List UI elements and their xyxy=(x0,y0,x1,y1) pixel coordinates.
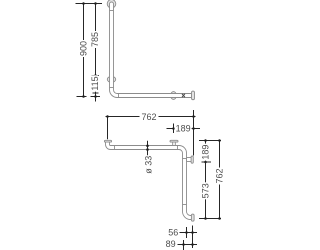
svg-text:900: 900 xyxy=(79,41,89,56)
svg-text:189: 189 xyxy=(176,123,191,133)
right support plate xyxy=(191,156,193,163)
dim dots drawing 1 xyxy=(82,2,97,98)
X mark on horizontal bar xyxy=(182,94,185,97)
label 189 top xyxy=(175,123,192,133)
dimension line 762 top xyxy=(106,116,196,118)
support collar on vertical bar xyxy=(107,76,115,82)
svg-text:89: 89 xyxy=(166,239,176,249)
extension line right bottom xyxy=(199,218,221,220)
joint line after left bend xyxy=(114,146,116,150)
tick bottom of 115 xyxy=(91,96,101,98)
bottom flange plate xyxy=(191,214,194,221)
svg-text:762: 762 xyxy=(141,112,156,122)
svg-text:785: 785 xyxy=(90,32,100,47)
dimension line 56 xyxy=(180,232,198,234)
svg-text:189: 189 xyxy=(201,145,211,160)
svg-text:56: 56 xyxy=(168,227,178,237)
leader line dia 33 xyxy=(147,141,149,156)
right support stem xyxy=(187,158,192,162)
svg-text:573: 573 xyxy=(201,183,211,198)
extension line right top xyxy=(199,140,221,142)
label 900 xyxy=(79,40,89,57)
grab bar tube L-shape elevation xyxy=(110,2,192,98)
support collar on horizontal bar xyxy=(171,92,177,100)
tick 89 left xyxy=(183,240,185,250)
tick 56 left xyxy=(186,227,188,238)
tick mid support xyxy=(173,124,175,134)
dim extension line top xyxy=(76,3,103,5)
tick 785 115 boundary xyxy=(92,75,100,77)
end flange capsule xyxy=(192,91,195,100)
joint line on vertical leg top xyxy=(183,158,187,160)
svg-text:ø 33: ø 33 xyxy=(144,156,154,174)
svg-text:762: 762 xyxy=(215,168,225,183)
label 573 xyxy=(201,182,211,199)
joint line on vertical leg bottom xyxy=(183,204,187,206)
wall flange top disc xyxy=(107,0,116,8)
left flange plate xyxy=(104,140,111,142)
tick 189 573 boundary xyxy=(202,161,212,163)
label 189 right xyxy=(201,144,211,161)
extension wall right xyxy=(193,110,195,156)
joint line after bend xyxy=(118,94,120,98)
label 762 right xyxy=(215,168,225,185)
dimension line 189 573 right xyxy=(205,141,207,219)
joint line before right bend xyxy=(177,146,179,150)
dimension line 89 xyxy=(178,244,198,246)
tick bottom of 900 xyxy=(77,96,87,98)
joint line above bend xyxy=(110,87,114,89)
label dia 33 xyxy=(144,156,154,174)
mid support stem xyxy=(173,142,176,147)
label 785 xyxy=(90,31,100,48)
dimension line 189 top xyxy=(167,128,201,130)
label 762 top xyxy=(140,112,159,122)
joint line near flange xyxy=(110,10,114,12)
extension left flange xyxy=(107,117,109,140)
dimension line 785 and 115 xyxy=(95,4,97,102)
dim dots drawing 2 xyxy=(106,115,221,246)
mid flange plate xyxy=(170,140,178,142)
dimension line 900 xyxy=(83,4,85,97)
dimension line 762 right xyxy=(219,141,221,219)
label 115 xyxy=(90,75,100,91)
tick bar top edge on line B xyxy=(93,92,99,94)
grab bar tube plan view xyxy=(106,142,192,220)
tick wall bottom xyxy=(192,226,194,249)
svg-text:115: 115 xyxy=(90,76,100,90)
